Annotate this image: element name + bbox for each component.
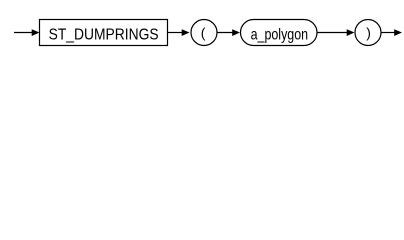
svg-text:): ) — [366, 25, 371, 41]
svg-text:(: ( — [201, 25, 206, 41]
svg-text:ST_DUMPRINGS: ST_DUMPRINGS — [49, 27, 159, 44]
svg-text:a_polygon: a_polygon — [251, 27, 309, 44]
